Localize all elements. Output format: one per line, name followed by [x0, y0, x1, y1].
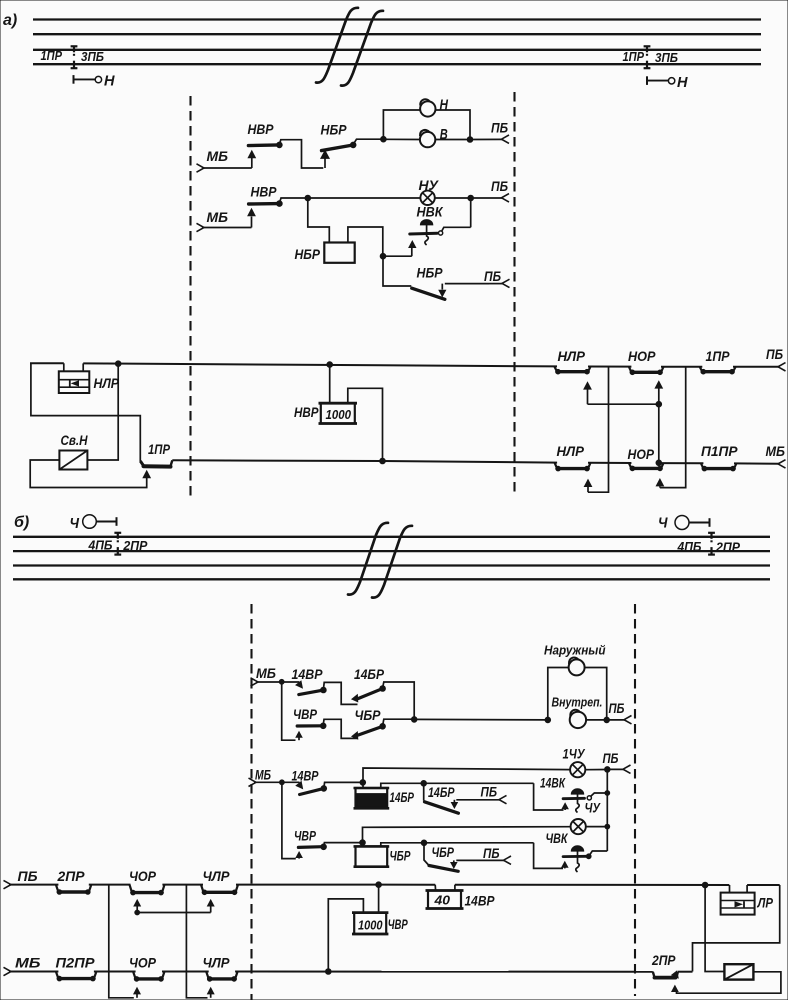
svg-text:Ч: Ч — [658, 516, 668, 532]
contact 1ПР (а top bus) — [700, 348, 736, 374]
lamp Н (а row1) — [420, 98, 448, 117]
svg-text:ПБ: ПБ — [603, 750, 619, 766]
svg-text:40: 40 — [433, 893, 450, 908]
wire ПБ end (а row2) — [468, 178, 509, 202]
svg-text:ЧВР: ЧВР — [293, 707, 318, 722]
label 1ПР (а right) — [623, 50, 645, 64]
wire СВ.Н feed (а) — [88, 364, 119, 460]
svg-text:14ВК: 14ВК — [540, 776, 566, 791]
svg-text:14БР: 14БР — [354, 667, 385, 682]
insulated joint (а right) — [644, 46, 651, 68]
svg-text:14ВР: 14ВР — [292, 667, 324, 682]
svg-text:НЛР: НЛР — [94, 375, 120, 391]
wire step ЧВР-ЧБР (б row1) — [323, 719, 357, 738]
contact 2ПР (б right) — [651, 952, 682, 981]
svg-text:ПБ: ПБ — [484, 268, 501, 284]
wire ПБ end (а row2b) — [484, 268, 510, 288]
contact ЧБР (б row1) — [351, 708, 385, 740]
wire coil ЧБР out (б row2) — [381, 840, 534, 846]
lamp Наружный (б row1) — [544, 643, 606, 676]
svg-text:2ПР: 2ПР — [57, 868, 86, 884]
label 4ПБ (б right) — [677, 540, 702, 554]
wire right loop (б) — [693, 885, 780, 972]
lamp НУ (а row2) — [419, 177, 440, 205]
node ПБ (б bus) — [4, 868, 38, 889]
svg-text:ПБ: ПБ — [766, 346, 783, 362]
svg-text:ЛР: ЛР — [757, 895, 774, 911]
svg-text:Н: Н — [440, 98, 449, 114]
insulated joint (б left) — [114, 533, 121, 555]
insulated joint (б right) — [708, 533, 715, 555]
wire to lamps (а row1) — [353, 136, 386, 144]
svg-text:1ПР: 1ПР — [623, 50, 645, 64]
svg-text:ПБ: ПБ — [483, 845, 500, 861]
wire ЧОР-ЧЛР arrows (б) — [133, 899, 215, 915]
junction dot ПБ-ЛР (б) — [702, 882, 708, 888]
svg-text:1ПР: 1ПР — [148, 441, 171, 457]
bus ПБ top (б) — [9, 884, 780, 886]
wire down to НБР back (а row2) — [383, 256, 411, 286]
lamp Внутреп (б row1) — [552, 695, 603, 729]
button contact НВК (а row2) — [410, 198, 471, 245]
node ПБ end (а top bus) — [766, 346, 786, 371]
fuse СВ.Н (а) — [59, 433, 87, 470]
wire ПБ end (б row1) — [586, 700, 631, 724]
contact НЛР (а bottom bus) — [555, 443, 591, 471]
wire СВ.Н to 1ПР (а) — [30, 460, 147, 488]
contact ЧЛР (б top bus) — [201, 868, 238, 895]
button contact ЧВК (б row2) — [546, 831, 608, 872]
wire to lamps (б row1) — [414, 717, 550, 723]
svg-text:ЧУ: ЧУ — [585, 801, 601, 816]
button contact 14ВК (б row2) — [540, 776, 610, 813]
contact ЧОР (б bottom bus) — [129, 955, 165, 982]
svg-text:ЧБР: ЧБР — [355, 708, 382, 723]
svg-text:ЧВР: ЧВР — [388, 916, 408, 932]
svg-text:НУ: НУ — [419, 177, 440, 193]
node МБ (б row1) — [251, 665, 277, 686]
contact НБР back (а row2) — [412, 265, 489, 300]
wire ЧБР to junction (б row1) — [383, 717, 417, 726]
svg-text:МБ: МБ — [207, 148, 229, 164]
node МБ (а row1) — [197, 148, 229, 172]
contact 1ПР (а left) — [140, 441, 172, 478]
node МБ (б row2) — [249, 767, 272, 787]
track rails (а) — [33, 20, 761, 65]
svg-text:3ПБ: 3ПБ — [655, 51, 678, 65]
svg-text:14БР: 14БР — [428, 785, 455, 800]
svg-text:НВК: НВК — [417, 205, 445, 220]
svg-text:ПБ: ПБ — [491, 178, 508, 194]
svg-text:ЧВР: ЧВР — [294, 829, 317, 844]
svg-text:НЛР: НЛР — [558, 348, 586, 364]
svg-text:Св.Н: Св.Н — [61, 433, 88, 448]
svg-text:В: В — [440, 127, 448, 143]
lamp В (а row1) — [420, 127, 448, 147]
svg-text:ЧОР: ЧОР — [129, 955, 157, 971]
signal Ч (б left) — [70, 515, 117, 532]
wire 14БР to junction (б row1) — [383, 682, 415, 719]
track rails (б) — [13, 537, 770, 580]
contact 14БР back (б row2) — [424, 783, 507, 813]
svg-text:1000: 1000 — [358, 918, 383, 933]
bus МБ bottom (а) — [172, 460, 779, 464]
wire ПБ vertical (б row2) — [606, 769, 608, 851]
dashed boundary left (б) — [250, 604, 252, 1000]
svg-text:Ч: Ч — [70, 516, 80, 532]
svg-text:МБ: МБ — [255, 767, 271, 783]
wire ЛР to box (б) — [705, 885, 724, 972]
dashed boundary left (а) — [189, 96, 191, 497]
contact 2ПР (б top bus) — [56, 868, 91, 894]
wire coil НБР to node (а row2) — [348, 227, 386, 259]
node МБ end (а bottom bus) — [766, 443, 786, 468]
wire top to lamp 1ЧУ (б row2) — [363, 768, 570, 788]
contact П2ПР (б bottom bus) — [56, 955, 97, 981]
svg-text:ЧБР: ЧБР — [432, 845, 455, 860]
section label а) — [3, 12, 17, 29]
svg-text:ЧБР: ЧБР — [390, 849, 412, 864]
svg-text:14ВР: 14ВР — [465, 893, 496, 909]
svg-text:ПБ: ПБ — [481, 784, 498, 800]
label 2ПР (б right) — [715, 540, 741, 554]
wire ЧВР step (б row2) — [324, 840, 366, 847]
wire НЛР-НОР arrows (а) — [583, 380, 663, 465]
svg-text:Наружный: Наружный — [544, 643, 606, 658]
relay coil НБР (а row2) — [295, 243, 355, 263]
wire step (а row1) — [279, 140, 323, 168]
wire МБ (б row1) — [256, 679, 284, 684]
dashed boundary right (б) — [634, 604, 636, 996]
svg-text:ПБ: ПБ — [18, 868, 38, 884]
svg-text:14БР: 14БР — [390, 790, 415, 805]
svg-text:П2ПР: П2ПР — [56, 955, 96, 971]
label 1ПР (а left) — [41, 49, 63, 63]
contact ЧЛР (б bottom bus) — [203, 955, 238, 982]
svg-text:2ПР: 2ПР — [715, 540, 741, 554]
contact 14БР (б row1) — [351, 667, 385, 703]
svg-text:Внутреп.: Внутреп. — [552, 695, 603, 710]
wire cross vertical 2 (б) — [186, 885, 214, 998]
wire ЧУ right (б row2) — [586, 824, 610, 829]
bus МБ bottom (б) — [9, 971, 693, 973]
wire to ЧВК (б row2) — [534, 843, 569, 869]
label 3ПБ (а right) — [655, 51, 678, 65]
contact НВР (а row1) — [247, 121, 282, 168]
svg-text:а): а) — [3, 12, 17, 29]
signal Ч (б right) — [658, 516, 710, 532]
insulated joint (а left) — [71, 46, 78, 68]
contact ЧОР (б top bus) — [129, 868, 165, 895]
svg-text:б): б) — [14, 514, 29, 531]
label 2ПР (б left) — [122, 539, 148, 553]
wire lamp loop upper (б row1) — [548, 668, 569, 720]
node МБ (а row2) — [197, 209, 229, 232]
svg-text:Н: Н — [104, 73, 116, 90]
svg-text:МБ: МБ — [256, 665, 276, 681]
contact НОР (а top bus) — [628, 348, 664, 375]
svg-text:ПБ: ПБ — [609, 700, 625, 716]
wire cross vertical 2 (а) — [656, 367, 686, 488]
wire ПБ end (а row1) — [470, 120, 509, 144]
wire to 14ВК (б row2) — [534, 783, 569, 810]
wire lamp Наружный out (б row1) — [585, 668, 607, 720]
svg-text:НЛР: НЛР — [557, 443, 585, 459]
wire step 14ВР-14БР (б row1) — [323, 682, 357, 704]
contact 14ВР (б row2) — [282, 769, 327, 795]
svg-text:ЧЛР: ЧЛР — [203, 955, 231, 971]
svg-text:1ПР: 1ПР — [41, 49, 63, 63]
svg-text:НОР: НОР — [628, 446, 655, 462]
wire ПБ end (б row2 upper) — [585, 750, 630, 773]
node МБ (б bus) — [4, 955, 41, 976]
wire cross vertical 1 (а) — [584, 367, 609, 492]
svg-text:НБР: НБР — [417, 265, 444, 281]
rail break (б) — [348, 523, 412, 598]
contact 14ВР (б row1) — [282, 667, 327, 695]
svg-text:НБР: НБР — [321, 122, 348, 138]
svg-text:Н: Н — [677, 74, 689, 91]
contact ЧВР (б row2) — [294, 829, 326, 859]
wire coil 14БР out (б row2) — [381, 781, 534, 789]
wire left loop (а) — [31, 363, 140, 461]
diode box ЛР (б) — [721, 885, 774, 915]
wire 14ВР step (б row2) — [324, 780, 366, 788]
svg-text:НВР: НВР — [251, 184, 278, 200]
wire to НВК arrow (а row2) — [383, 240, 417, 256]
wire ЧВР branch (б row1) — [282, 682, 296, 740]
wire ЧВР branch (б row2) — [282, 782, 296, 858]
svg-text:НВР: НВР — [248, 121, 275, 137]
relay 40 14ВР (б) — [426, 885, 496, 909]
wire МБ (а row2) — [202, 227, 252, 229]
label 3ПБ (а left) — [81, 50, 104, 64]
relay coil ЧБР (б row2) — [354, 846, 412, 866]
svg-text:П1ПР: П1ПР — [701, 443, 738, 459]
label 4ПБ (б left) — [88, 539, 113, 553]
contact НОР (а bottom bus) — [628, 446, 664, 471]
diode box НЛР (а) — [59, 363, 120, 393]
svg-text:ЧОР: ЧОР — [129, 868, 157, 884]
signal Н (а right) — [647, 74, 689, 91]
wire lamp branch upper (а row1) — [383, 110, 420, 139]
contact НВР (а row2) — [247, 184, 282, 228]
wire top to lamp ЧУ (б row2) — [363, 827, 571, 847]
svg-text:МБ: МБ — [766, 443, 786, 459]
svg-text:14ВР: 14ВР — [292, 769, 320, 784]
relay НВР 1000 (а) — [294, 362, 385, 464]
lamp ЧУ (б row2) — [571, 801, 601, 835]
fuse box right (б) — [724, 964, 753, 979]
wire lamp Н out (а row1) — [436, 110, 471, 139]
wire to coil НБР (а row2) — [308, 198, 330, 243]
svg-text:МБ: МБ — [15, 955, 41, 971]
svg-text:1000: 1000 — [326, 407, 352, 422]
contact НБР (а row1) — [320, 122, 356, 169]
wire lamp В (а row1) — [383, 137, 472, 143]
contact НЛР (а top bus) — [555, 348, 591, 374]
wire cross vertical 1 (б) — [109, 885, 141, 998]
svg-text:4ПБ: 4ПБ — [677, 540, 702, 554]
bus ПБ top (а) — [30, 363, 780, 367]
contact П1ПР (а bottom bus) — [701, 443, 738, 471]
svg-text:2ПР: 2ПР — [651, 952, 676, 968]
dashed boundary right (а) — [513, 92, 515, 497]
svg-text:НБР: НБР — [295, 246, 321, 262]
svg-text:МБ: МБ — [207, 209, 229, 225]
relay coil 14БР (б row2) — [354, 788, 415, 808]
contact ЧБР back (б row2) — [424, 843, 511, 872]
signal Н (а left) — [74, 73, 116, 90]
junction dot НЛР bus (а) — [115, 361, 121, 367]
wire to НУ (а row2) — [279, 195, 470, 203]
svg-text:3ПБ: 3ПБ — [81, 50, 104, 64]
wire МБ (а row1) — [202, 167, 252, 169]
svg-text:ЧВК: ЧВК — [546, 831, 569, 846]
svg-text:НВР: НВР — [294, 404, 319, 420]
svg-text:1ПР: 1ПР — [706, 348, 731, 364]
contact ЧВР (б row1) — [293, 707, 326, 740]
svg-text:НОР: НОР — [628, 348, 656, 364]
svg-text:ЧЛР: ЧЛР — [203, 868, 231, 884]
rail break (а) — [316, 8, 383, 86]
wire fuse to 2ПР arrow (б) — [671, 972, 781, 993]
wire МБ (б row2) — [254, 780, 284, 785]
svg-text:2ПР: 2ПР — [122, 539, 148, 553]
lamp 1ЧУ (б row2) — [563, 747, 586, 778]
relay ЧВР 1000 (б) — [326, 882, 409, 974]
section label б) — [14, 514, 29, 531]
svg-text:ПБ: ПБ — [491, 120, 508, 136]
svg-text:1ЧУ: 1ЧУ — [563, 747, 586, 762]
svg-text:4ПБ: 4ПБ — [88, 539, 113, 553]
